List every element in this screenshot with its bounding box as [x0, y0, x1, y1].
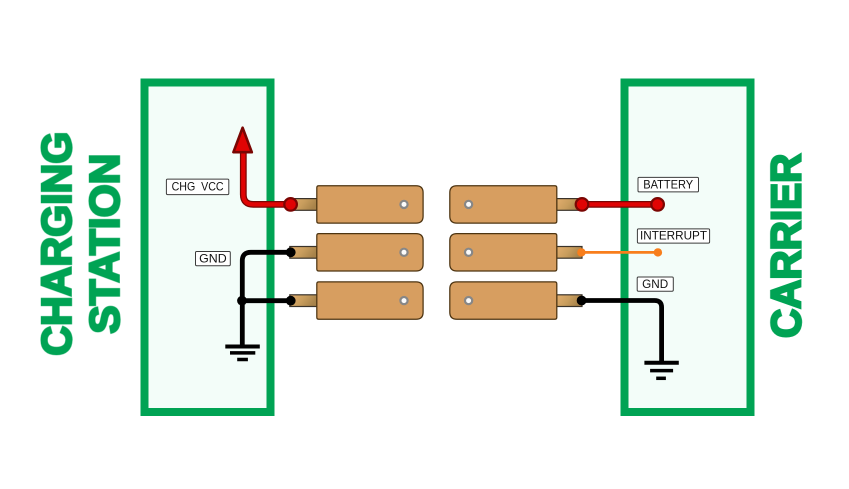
- title STATION: [81, 154, 128, 334]
- connector J3 stem (left bottom): [290, 295, 317, 307]
- dot GND-left at J2: [286, 247, 296, 257]
- title CHARGING: [33, 132, 80, 356]
- arrowhead CHG VCC: [233, 128, 251, 153]
- connector J1 body (left top): [317, 186, 423, 223]
- label INTERRUPT: [637, 229, 709, 243]
- connector J3 body (left bottom): [317, 282, 423, 319]
- wire GND-left upper branch: [242, 252, 290, 300]
- connector J4 hole: [465, 201, 472, 208]
- connector J5 stem (right middle): [557, 247, 582, 259]
- ground symbol left: [225, 347, 259, 360]
- wire GND-left lower branch: [242, 301, 290, 347]
- carrier panel: [625, 83, 751, 413]
- svg-text:GND: GND: [199, 253, 227, 266]
- connector J2 stem (left middle): [290, 247, 317, 259]
- bendpoint dot CHG VCC: [284, 198, 297, 211]
- dot BATTERY right end: [651, 198, 664, 211]
- svg-text:INTERRUPT: INTERRUPT: [640, 229, 707, 242]
- connector J5 body (right middle): [450, 234, 557, 271]
- svg-text:CHG VCC: CHG VCC: [172, 181, 224, 194]
- label BATTERY: [638, 177, 699, 192]
- connector J5 hole: [465, 249, 472, 256]
- dot INTERRUPT at J5: [577, 248, 585, 256]
- connector J1 hole: [400, 201, 407, 208]
- dot INTERRUPT right end: [654, 248, 662, 256]
- connector J2 body (left middle): [317, 234, 423, 271]
- title CARRIER: [762, 154, 809, 338]
- connector J4 body (right top): [450, 186, 557, 223]
- svg-text:STATION: STATION: [81, 154, 128, 334]
- connector J1 stem (left top): [290, 199, 317, 211]
- wire CHG VCC core: [243, 151, 290, 205]
- svg-text:CARRIER: CARRIER: [762, 154, 809, 338]
- ground symbol right: [644, 363, 678, 379]
- svg-text:CHARGING: CHARGING: [33, 132, 80, 356]
- label GND right: [637, 277, 673, 291]
- wire GND-right: [582, 301, 662, 363]
- junction dot GND-left: [237, 296, 247, 306]
- wire BATTERY core: [582, 202, 658, 206]
- connector J2 hole: [400, 249, 407, 256]
- svg-text:BATTERY: BATTERY: [643, 179, 693, 192]
- dot BATTERY at J4: [576, 198, 589, 211]
- wire INTERRUPT: [581, 251, 658, 254]
- dot GND-left at J3: [286, 296, 296, 306]
- charging station panel: [145, 83, 271, 413]
- svg-text:GND: GND: [642, 278, 668, 291]
- connector J6 body (right bottom): [450, 282, 557, 319]
- connector J6 stem (right bottom): [557, 295, 582, 307]
- label GND left: [196, 252, 231, 266]
- wire CHG VCC outline: [243, 151, 290, 205]
- label CHG VCC: [166, 179, 228, 195]
- wire BATTERY outline: [582, 201, 658, 208]
- dot GND-right at J6: [577, 296, 587, 306]
- connector J3 hole: [400, 297, 407, 304]
- connector J6 hole: [465, 297, 472, 304]
- connector J4 stem (right top): [557, 199, 582, 211]
